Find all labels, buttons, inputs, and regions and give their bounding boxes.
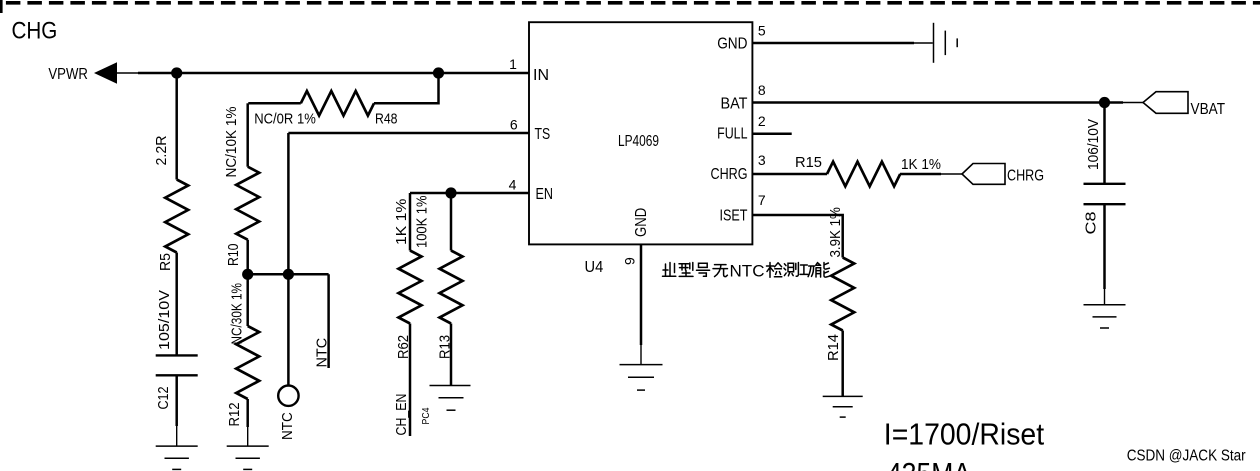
svg-text:GND: GND [717, 36, 747, 53]
svg-text:NTC: NTC [314, 338, 331, 368]
svg-text:NC/30K 1%: NC/30K 1% [229, 283, 246, 345]
svg-text:C8: C8 [1083, 212, 1100, 235]
svg-text:1K 1%: 1K 1% [901, 156, 941, 173]
svg-text:9: 9 [622, 257, 638, 265]
svg-text:R12: R12 [226, 403, 243, 427]
svg-text:GND: GND [633, 208, 650, 237]
svg-text:FULL: FULL [717, 126, 747, 143]
svg-text:2.2R: 2.2R [153, 135, 170, 165]
svg-text:R5: R5 [157, 253, 174, 271]
svg-text:IN: IN [533, 67, 549, 84]
svg-text:PC4: PC4 [420, 407, 432, 424]
svg-text:ISET: ISET [720, 208, 748, 225]
svg-text:435MA: 435MA [887, 456, 971, 471]
svg-text:6: 6 [510, 117, 518, 133]
svg-text:105/10V: 105/10V [156, 290, 173, 350]
svg-text:CHRG: CHRG [1007, 167, 1044, 184]
svg-text:VPWR: VPWR [48, 66, 88, 83]
svg-text:CHRG: CHRG [711, 166, 748, 183]
svg-text:VBAT: VBAT [1191, 101, 1226, 118]
svg-text:CHG: CHG [12, 18, 58, 45]
svg-text:R48: R48 [375, 111, 398, 128]
svg-text:7: 7 [758, 192, 766, 208]
svg-text:U4: U4 [585, 259, 604, 276]
svg-text:I=1700/Riset: I=1700/Riset [884, 417, 1045, 452]
svg-text:TS: TS [535, 126, 551, 143]
svg-text:R10: R10 [225, 244, 242, 267]
svg-text:R14: R14 [825, 334, 842, 361]
svg-text:100K 1%: 100K 1% [414, 196, 431, 249]
svg-text:CH_EN: CH_EN [393, 394, 410, 436]
svg-text:R13: R13 [437, 335, 454, 359]
svg-text:NC/0R 1%: NC/0R 1% [254, 111, 316, 128]
svg-text:8: 8 [758, 82, 766, 98]
svg-text:3.9K 1%: 3.9K 1% [827, 207, 844, 257]
svg-text:5: 5 [758, 23, 766, 39]
svg-text:2: 2 [758, 113, 766, 129]
svg-text:1K 1%: 1K 1% [393, 199, 410, 245]
svg-text:EN: EN [536, 186, 554, 203]
svg-text:106/10V: 106/10V [1085, 119, 1102, 170]
svg-text:C12: C12 [155, 387, 172, 410]
svg-text:CSDN @JACK Star: CSDN @JACK Star [1127, 448, 1246, 465]
svg-text:NTC: NTC [730, 262, 765, 281]
svg-text:NTC: NTC [279, 412, 296, 440]
svg-text:LP4069: LP4069 [618, 133, 659, 150]
svg-text:R15: R15 [795, 154, 822, 171]
svg-text:BAT: BAT [721, 95, 748, 112]
svg-text:3: 3 [758, 152, 766, 168]
svg-text:1: 1 [509, 56, 517, 72]
svg-text:NC/10K 1%: NC/10K 1% [223, 107, 240, 178]
svg-text:4: 4 [509, 177, 517, 193]
svg-text:R62: R62 [395, 335, 412, 359]
